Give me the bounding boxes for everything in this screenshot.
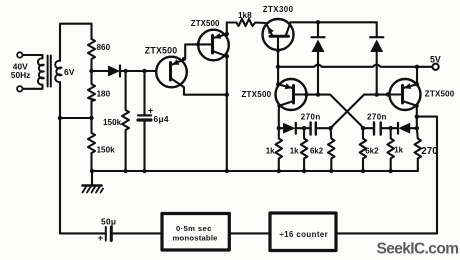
wire cross coupling Q5 base to left node bbox=[331, 95, 390, 129]
resistor 1k second bbox=[301, 128, 308, 171]
node 6k2 left bottom bbox=[329, 169, 333, 173]
svg-text:860: 860 bbox=[97, 43, 111, 52]
svg-text:50μ: 50μ bbox=[101, 217, 116, 227]
capacitor 270n right bbox=[363, 122, 391, 134]
svg-text:0·5m sec: 0·5m sec bbox=[176, 224, 212, 233]
resistor 1k fifth bbox=[387, 128, 394, 171]
node 1k fifth top bbox=[389, 126, 393, 130]
top rail bbox=[291, 21, 377, 23]
resistor 860 bbox=[88, 39, 95, 71]
transformer core bbox=[47, 56, 49, 87]
transistor Q3 ZTX300 bbox=[263, 19, 294, 51]
capacitor 6u4 bbox=[138, 71, 151, 171]
svg-text:ZTX300: ZTX300 bbox=[263, 5, 294, 14]
wire bottom from left rail to 50u bbox=[60, 232, 106, 234]
ground bbox=[83, 169, 104, 193]
capacitor 270n left bbox=[311, 122, 331, 134]
svg-text:6k2: 6k2 bbox=[310, 146, 324, 155]
svg-text:270: 270 bbox=[421, 146, 438, 157]
wire Q5 collector down bbox=[416, 106, 418, 129]
box monostable bbox=[162, 214, 229, 251]
wire Q1 emitter to Q2 base bbox=[184, 44, 199, 59]
node 150k bottom bbox=[123, 169, 127, 173]
diode D5 bbox=[391, 123, 417, 134]
node Q5 emitter on 5V rail bbox=[415, 65, 419, 69]
node rail 118 right bbox=[89, 116, 93, 120]
wire Q3 base down to rail bbox=[277, 51, 279, 67]
wire secondary top to top rail bbox=[60, 24, 92, 61]
svg-text:monostable: monostable bbox=[173, 233, 219, 242]
wire Q4 emitter up bbox=[277, 67, 279, 85]
node Q2 collector bbox=[225, 54, 229, 58]
svg-text:÷16 counter: ÷16 counter bbox=[280, 230, 329, 239]
svg-text:+: + bbox=[98, 233, 103, 243]
node Q4 collector bbox=[277, 104, 281, 108]
resistor 180 bbox=[88, 71, 95, 118]
wire rail y118 bbox=[60, 117, 92, 119]
svg-text:ZTX500: ZTX500 bbox=[241, 90, 271, 99]
resistor 1k8 bbox=[227, 19, 266, 26]
wire Q4 collector down bbox=[278, 106, 281, 129]
svg-text:ZTX500: ZTX500 bbox=[191, 19, 220, 28]
node Q1 emitter bbox=[182, 57, 186, 61]
node collector wire at ground rail bbox=[225, 169, 229, 173]
svg-text:6V: 6V bbox=[64, 67, 75, 77]
node Q5 base bbox=[386, 92, 390, 96]
supply rail 5V with hops bbox=[278, 65, 432, 67]
node Q2 base bbox=[196, 42, 200, 46]
node 1k second top bbox=[302, 126, 306, 130]
ground rail bbox=[92, 170, 418, 172]
node Q4 collector at diode row bbox=[277, 126, 281, 130]
node 1k fifth bottom bbox=[389, 169, 393, 173]
svg-text:ZTX500: ZTX500 bbox=[145, 46, 178, 56]
svg-text:270n: 270n bbox=[301, 112, 321, 121]
node Q4 emitter bbox=[276, 82, 280, 86]
wire terminal top to primary bbox=[23, 55, 43, 58]
node D3 bottom junction bbox=[375, 92, 379, 96]
svg-text:1k: 1k bbox=[266, 146, 275, 155]
transformer T input terminal top bbox=[17, 52, 22, 57]
wire Q5 emitter up bbox=[416, 67, 418, 85]
svg-text:1k8: 1k8 bbox=[238, 11, 252, 20]
wire Q2 collector down to ground rail bbox=[226, 56, 228, 171]
node feedback tap on Q5 collector bbox=[415, 114, 419, 118]
wire cross coupling Q4 base to right node bbox=[307, 95, 364, 129]
node Q3 base / Q4 emitter on 5V rail bbox=[276, 65, 280, 69]
node left X bbox=[328, 126, 332, 130]
transformer input terminal bottom bbox=[17, 86, 22, 91]
diode D4 bbox=[279, 123, 311, 134]
svg-text:150k: 150k bbox=[103, 118, 122, 127]
svg-text:270n: 270n bbox=[367, 112, 387, 121]
svg-text:1k: 1k bbox=[290, 146, 299, 155]
node Q5 emitter bbox=[415, 82, 419, 86]
node Q4 base bbox=[304, 92, 308, 96]
node Q5 collector bbox=[415, 104, 419, 108]
node 150k top bbox=[123, 69, 127, 73]
terminal 5V bbox=[433, 64, 439, 70]
capacitor 50u bbox=[106, 227, 162, 241]
svg-text:150k: 150k bbox=[97, 145, 116, 154]
svg-text:+: + bbox=[148, 105, 153, 115]
node Q2 emitter bbox=[225, 32, 229, 36]
wire Q2 emitter up to 1k8 bbox=[226, 23, 228, 35]
node D2 bottom junction bbox=[316, 92, 320, 96]
svg-text:ZTX500: ZTX500 bbox=[425, 89, 455, 98]
node 6u4 bottom bbox=[142, 169, 146, 173]
node 1k second bottom bbox=[302, 169, 306, 173]
transistor Q2 ZTX500 bbox=[198, 30, 229, 61]
svg-text:50Hz: 50Hz bbox=[11, 70, 31, 80]
transformer secondary winding bbox=[55, 61, 61, 82]
node Q1/Q2 collector junction bbox=[225, 93, 229, 97]
node rail 118 left bbox=[58, 116, 62, 120]
svg-text:SeekIC.com: SeekIC.com bbox=[377, 241, 459, 258]
resistor 150k lower bbox=[88, 118, 95, 171]
node Q5 collector row bbox=[415, 126, 419, 130]
node D2 top on rail bbox=[316, 20, 320, 24]
node Q3 base lead bbox=[276, 49, 280, 53]
svg-text:1k: 1k bbox=[394, 146, 403, 155]
svg-text:180: 180 bbox=[97, 89, 111, 98]
diode D2 bbox=[312, 22, 325, 94]
node right X bbox=[361, 126, 365, 130]
transistor Q5 ZTX500 bbox=[390, 79, 421, 110]
wire terminal bottom to primary bbox=[23, 86, 43, 89]
resistor 150k upper bbox=[122, 71, 129, 171]
wire Q1 collector bbox=[184, 87, 227, 94]
node 6u4 top bbox=[142, 69, 146, 73]
resistor 6k2 left bbox=[328, 128, 335, 171]
svg-text:6k2: 6k2 bbox=[365, 146, 379, 155]
box counter bbox=[270, 213, 336, 251]
diode D1 bbox=[92, 66, 157, 77]
wire monostable to counter bbox=[229, 232, 270, 234]
wire feedback from Q5 collector bbox=[336, 117, 437, 234]
node 6k2 right bottom bbox=[361, 169, 365, 173]
svg-text:5V: 5V bbox=[430, 55, 441, 65]
resistor 6k2 right bbox=[360, 128, 367, 171]
node 860/180 junction bbox=[89, 69, 93, 73]
transistor Q4 ZTX500 bbox=[276, 79, 307, 110]
transistor Q1 ZTX500 bbox=[156, 57, 187, 88]
transformer primary winding bbox=[38, 58, 44, 84]
node 1k first bottom bbox=[277, 169, 281, 173]
resistor 270 bbox=[415, 128, 422, 171]
wire secondary bottom down left rail bbox=[59, 82, 61, 233]
svg-text:6μ4: 6μ4 bbox=[154, 114, 169, 124]
diode D3 bbox=[370, 22, 383, 94]
resistor 1k first bbox=[276, 128, 283, 171]
